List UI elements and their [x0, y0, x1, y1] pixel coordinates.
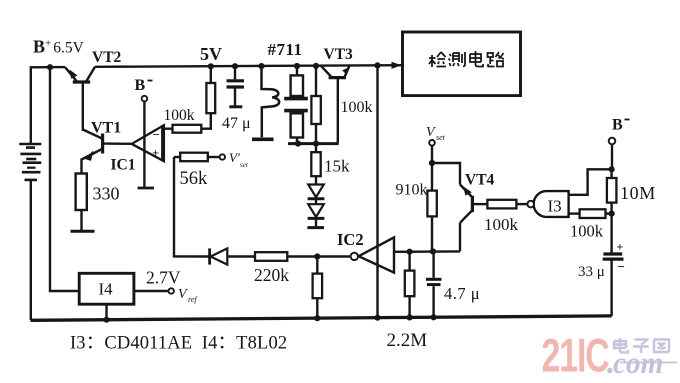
resistor 100k (VT4 base) [487, 200, 516, 209]
wire to VT4 collector [432, 163, 460, 185]
battery GB 6.5V [19, 144, 41, 320]
wire I3 top input L to B- node [569, 169, 612, 195]
wire corner to vertical 100k [201, 113, 211, 129]
resistor 15k [311, 145, 320, 184]
terminal Vset (VT4) [429, 140, 435, 146]
node 4.7u top [430, 248, 436, 254]
watermark 21IC.com logo [542, 329, 678, 382]
svg-text:4.7 μ: 4.7 μ [444, 284, 480, 303]
diode VD2 [308, 204, 325, 226]
svg-text:+: + [617, 240, 624, 254]
node 47u/rail [232, 63, 238, 69]
node 100k/rail [208, 63, 214, 69]
detection circuit box [403, 32, 521, 96]
resistor 100k (I3) [580, 209, 606, 218]
wire B- to IC1 supply pin [143, 101, 145, 187]
transistor VT4 [460, 185, 487, 252]
wire I3 bottom input [569, 212, 580, 214]
svg-text:2.2M: 2.2M [387, 330, 428, 351]
capacitor 33u [603, 214, 624, 316]
wire long mid vertical [376, 65, 378, 317]
svg-text:IC1: IC1 [111, 157, 136, 174]
svg-text:VT1: VT1 [91, 120, 121, 137]
svg-text:V: V [426, 125, 436, 140]
wire 100k to rail [210, 66, 212, 83]
junction dots bottom rail [103, 317, 109, 323]
node 10M/100k/33u [609, 211, 615, 217]
wire diode to 56k corner [174, 157, 210, 257]
svg-text:100k: 100k [341, 99, 373, 116]
resistor 100k horizontal (IC1 input) [173, 125, 202, 133]
svg-text:330: 330 [93, 184, 120, 204]
terminal Vset (56k) [220, 154, 225, 159]
svg-text:910k: 910k [396, 182, 428, 199]
svg-text:B+6.5V: B+6.5V [33, 37, 85, 57]
capacitor 4.7u [426, 252, 442, 318]
wire 100k to I3 bubble [516, 203, 527, 205]
inverter IC2 [351, 237, 394, 272]
svg-text:33 μ: 33 μ [578, 264, 605, 280]
node mid vertical/rail [374, 62, 380, 68]
svg-text:#711: #711 [268, 40, 303, 59]
svg-text:set: set [240, 161, 249, 169]
svg-text:set: set [436, 133, 446, 142]
svg-text:56k: 56k [180, 169, 209, 189]
svg-text:+: + [152, 145, 159, 159]
resistor 10M [607, 169, 617, 213]
wire I4 output to Vref [134, 290, 169, 292]
node Vset branch [429, 160, 435, 166]
node B-/10M [609, 166, 615, 172]
svg-text:VT2: VT2 [92, 49, 122, 66]
wire IC2 output row [287, 255, 350, 257]
IC I4 box [79, 273, 134, 304]
transistor VT3 [321, 66, 350, 144]
svg-text:ref: ref [188, 295, 198, 304]
transistor VT2 [65, 67, 95, 131]
ground bar (coil) [252, 138, 274, 142]
wire B+ rail top-left corner [31, 67, 65, 143]
wire IC1 inverting input [164, 127, 173, 129]
capacitor 47u [227, 66, 245, 107]
terminal bar below diodes [307, 226, 324, 229]
wire 100k to node [606, 212, 612, 214]
node 220k/resistor-down [314, 253, 320, 259]
node coil/rail [258, 63, 264, 69]
resistor 2.2M [405, 252, 415, 318]
wire B- down [611, 144, 613, 169]
svg-text:100k: 100k [570, 222, 604, 241]
node 100k-VT3/rail [313, 63, 319, 69]
svg-text:I3：CD4011AE I4：T8L02: I3：CD4011AE I4：T8L02 [70, 334, 287, 354]
label detection-circuit (CJK hand-drawn) [429, 51, 504, 67]
wire bottom ground rail [31, 316, 612, 320]
svg-text:I3: I3 [548, 197, 562, 216]
svg-text:21IC: 21IC [542, 329, 610, 382]
svg-text:220k: 220k [254, 265, 289, 285]
wire 220k to diode [228, 255, 255, 257]
svg-text:B: B [135, 77, 146, 94]
wire Vset down [431, 146, 433, 163]
svg-text:2.7V: 2.7V [146, 268, 181, 288]
svg-text:−: − [153, 127, 160, 142]
wire from B+ node down to I4 input [50, 67, 79, 291]
svg-text:100k: 100k [484, 215, 519, 234]
svg-text:100k: 100k [164, 107, 195, 124]
svg-text:47 μ: 47 μ [222, 115, 251, 132]
diode VD3 [210, 248, 228, 264]
svg-text:B: B [612, 117, 623, 134]
node 2.2M top [407, 249, 413, 255]
op-amp IC1 [132, 125, 164, 161]
resistor 220k [255, 252, 287, 261]
svg-text:I4: I4 [99, 280, 114, 299]
transistor VT1 [82, 130, 132, 174]
svg-text:IC2: IC2 [337, 230, 364, 249]
wire top 5V rail [95, 65, 402, 67]
terminal B- (IC1 supply) [142, 96, 148, 102]
wire node bar (711 / 100k / VT3 base) [288, 142, 339, 145]
resistor 100k vertical (VT3 bias) [311, 66, 320, 144]
svg-text:V: V [178, 287, 188, 302]
resistor below 220k node [313, 257, 323, 319]
node B+ junction [47, 64, 53, 70]
svg-text:15k: 15k [324, 157, 350, 176]
node 711/rail [294, 63, 300, 69]
resonator #711 (box-plate-plate-box) [284, 66, 308, 144]
junction dots on node bar [295, 141, 301, 147]
wire IC2 input row [394, 250, 460, 253]
svg-text:VT4: VT4 [465, 172, 495, 189]
svg-text:−: − [618, 259, 625, 274]
resistor 56k [174, 153, 220, 162]
svg-text:5V: 5V [200, 44, 222, 64]
resistor 100k vertical to 5V [206, 83, 215, 113]
terminal B- (right) [609, 138, 616, 145]
diode VD1 [308, 185, 325, 205]
terminal Vref [169, 288, 174, 293]
gate I3 (NAND, mirrored) [527, 191, 568, 217]
winding (coil) [252, 66, 279, 139]
svg-text:V′: V′ [229, 150, 240, 165]
svg-text:VT3: VT3 [324, 46, 354, 63]
arrow into detection box [392, 62, 402, 69]
resistor 330 [71, 174, 95, 232]
resistor 910k [427, 163, 436, 251]
svg-text:10M: 10M [620, 183, 656, 203]
wire I4 to ground rail [105, 304, 107, 320]
